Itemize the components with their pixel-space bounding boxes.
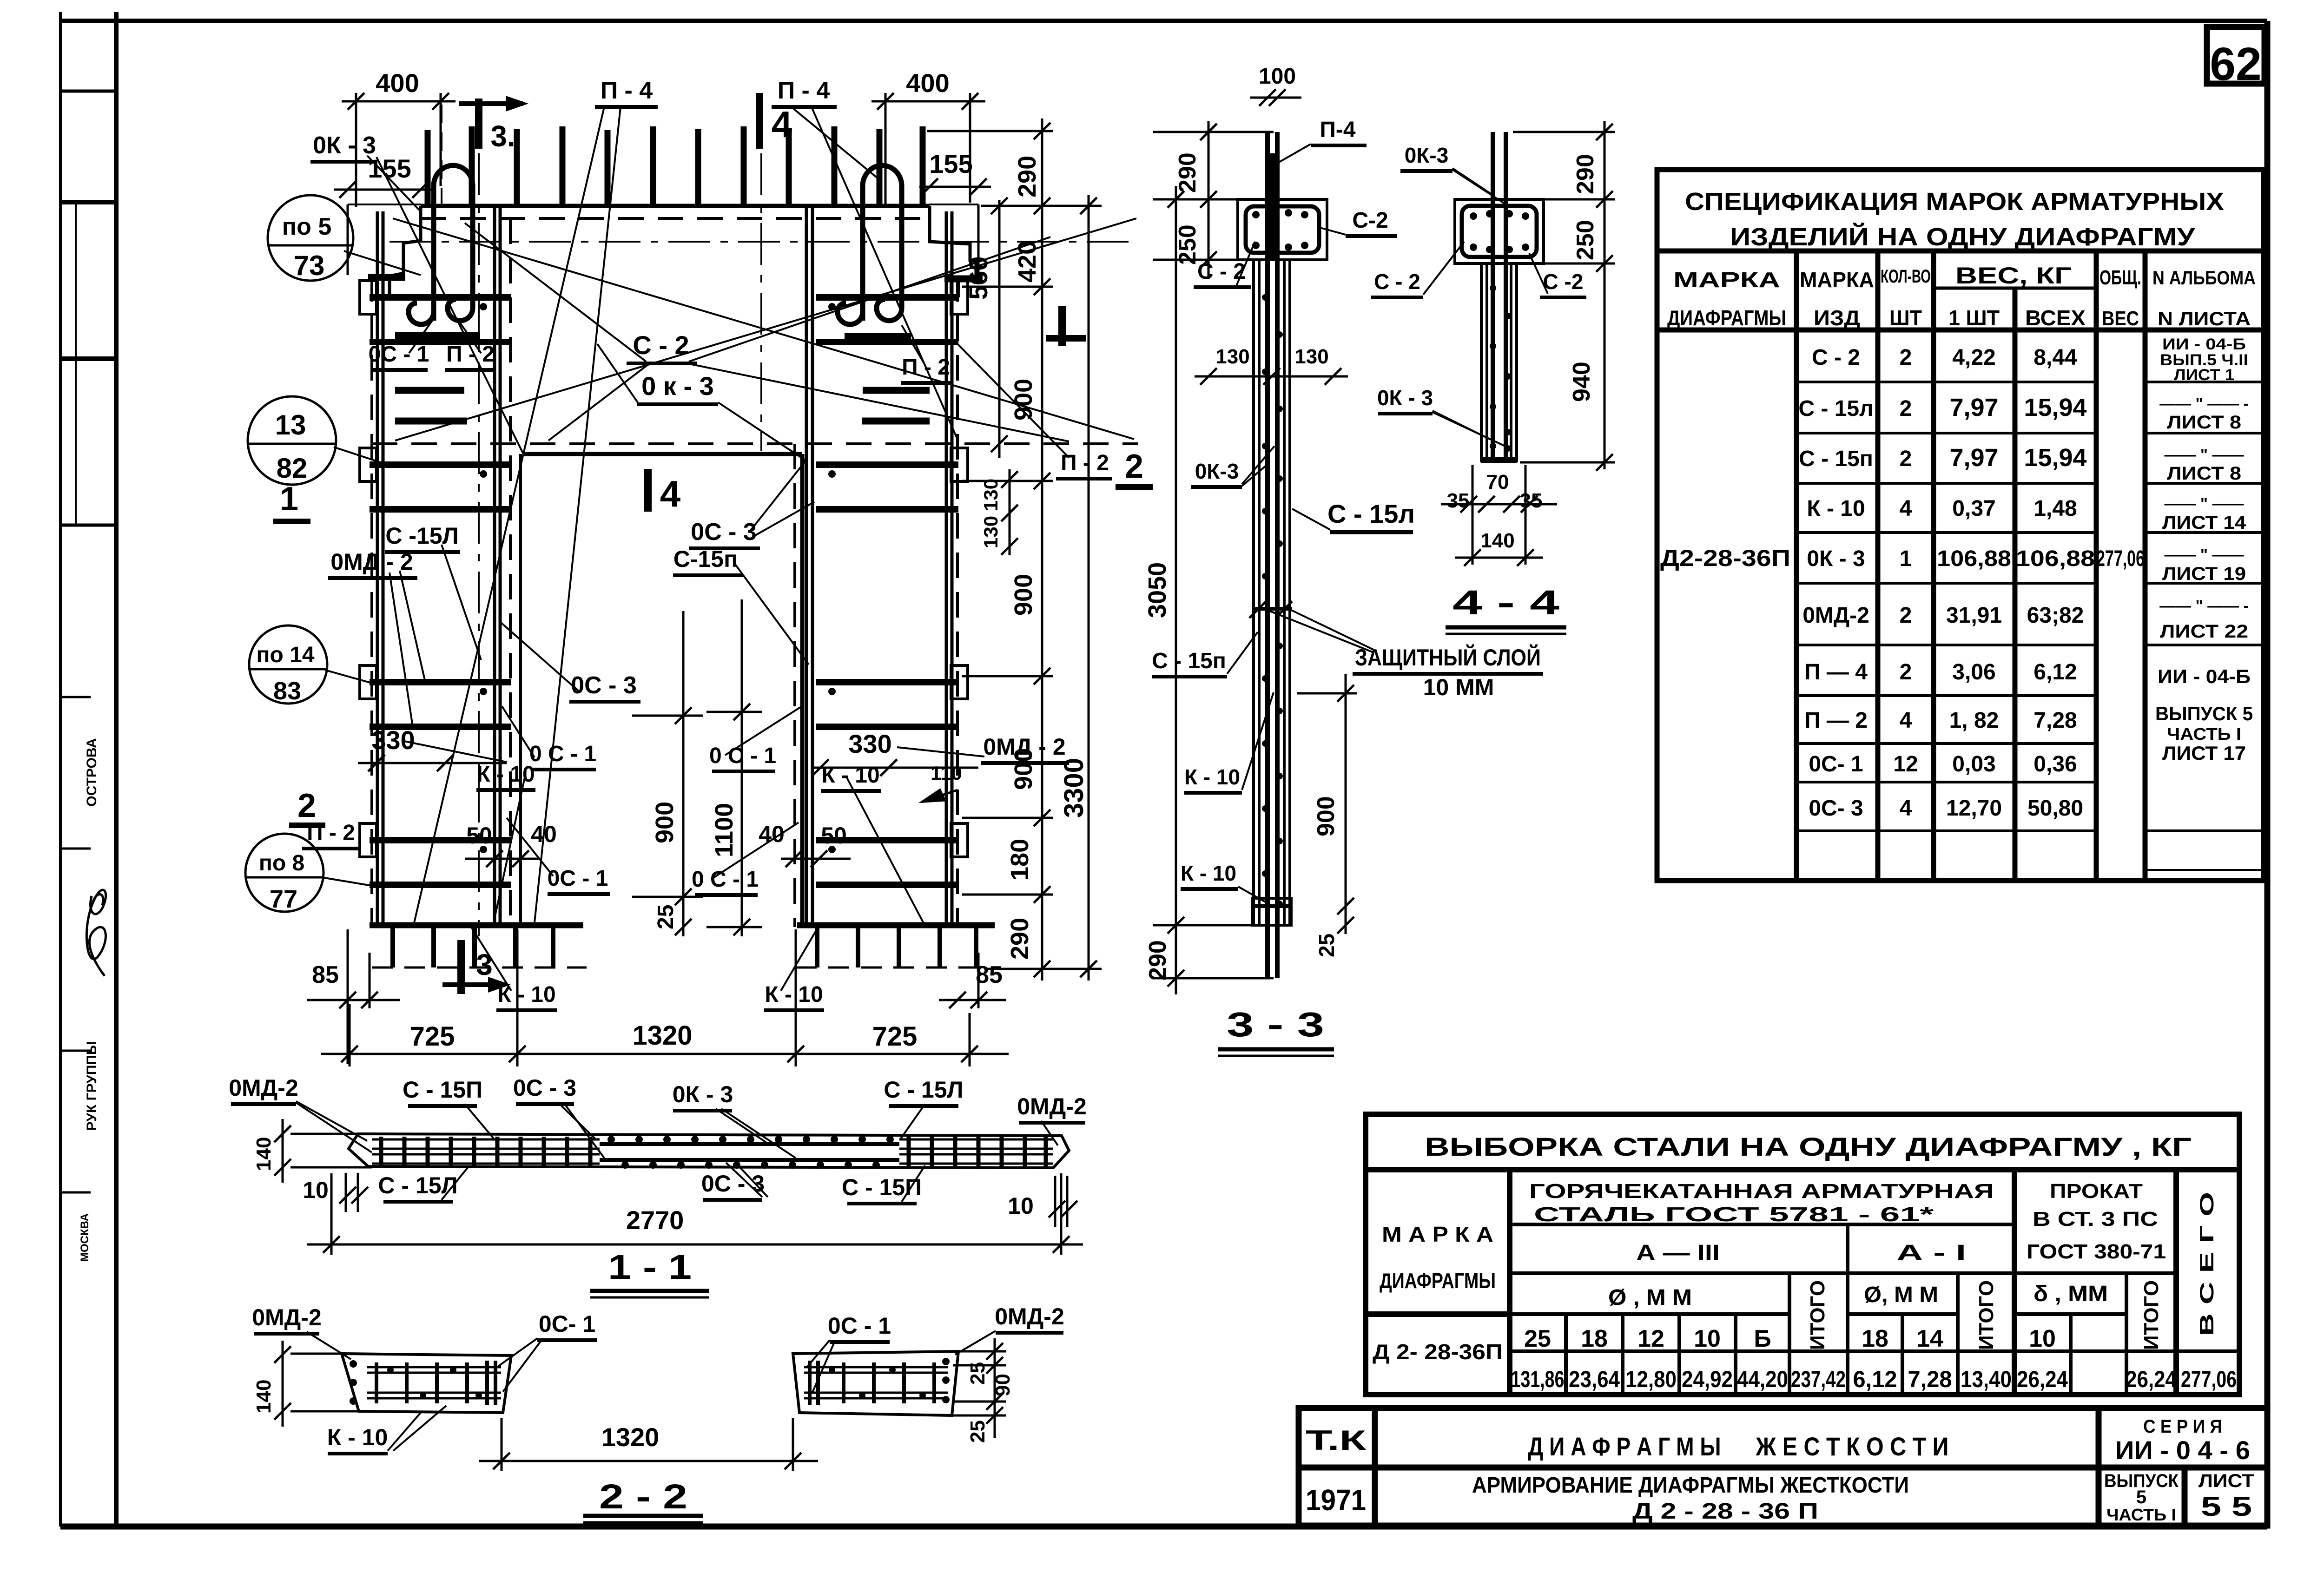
svg-text:4: 4 [660,473,681,514]
svg-text:ЛИСТ 19: ЛИСТ 19 [2162,564,2246,584]
svg-text:100: 100 [1259,64,1296,89]
svg-text:К - 10: К - 10 [1184,765,1240,789]
3-3 head box [1238,199,1327,260]
2-2 dims 25/90/25 right [952,1338,1006,1438]
svg-text:—— " —— -: —— " —— - [2159,597,2249,615]
door opening frame OK-3 [521,454,802,924]
svg-text:Д И А Ф Р А Г М Ы: Д И А Ф Р А Г М Ы [1528,1432,1721,1461]
svg-text:44,20: 44,20 [1737,1366,1788,1392]
svg-text:26,24: 26,24 [2126,1366,2177,1392]
svg-text:0С - 1: 0С - 1 [828,1313,891,1339]
svg-text:3: 3 [476,948,493,981]
wire: P-2 bar left lower [395,418,467,425]
svg-text:3.: 3. [490,119,515,153]
door inner chains 900 / 1100 / 25 [632,599,762,936]
svg-text:900: 900 [651,802,679,843]
callout circle po8/77 [245,834,324,913]
svg-text:РУК ГРУППЫ: РУК ГРУППЫ [84,1041,99,1131]
svg-text:2: 2 [1900,447,1912,471]
1-1 right mesh [899,1139,1053,1164]
dim 560 inner [991,197,1008,458]
svg-text:5: 5 [2136,1487,2146,1507]
svg-text:290: 290 [1144,940,1171,981]
hairpin P-4 left [409,165,473,324]
svg-text:ПРОКАТ: ПРОКАТ [2050,1180,2143,1203]
bottom chain 725/1320/725 [321,929,1009,1066]
svg-text:10: 10 [303,1177,329,1203]
svg-text:290: 290 [1174,152,1201,193]
svg-text:ЛИСТ: ЛИСТ [2199,1471,2254,1491]
svg-text:277,06: 277,06 [2096,546,2145,571]
svg-text:Ø , М М: Ø , М М [1608,1285,1692,1310]
svg-text:—— " —— -: —— " —— - [2159,395,2249,413]
svg-text:2: 2 [1900,345,1912,370]
svg-text:4: 4 [772,104,792,145]
panel top-left corner step [390,206,421,297]
svg-text:0,37: 0,37 [1952,496,1995,521]
svg-text:СТАЛЬ ГОСТ 5781 - 61*: СТАЛЬ ГОСТ 5781 - 61* [1534,1203,1934,1226]
svg-text:277,06: 277,06 [2181,1366,2237,1392]
svg-text:0К - 3: 0К - 3 [313,132,376,159]
svg-text:0 С - 1: 0 С - 1 [692,867,759,892]
svg-text:4 - 4: 4 - 4 [1452,583,1559,622]
svg-text:10 ММ: 10 ММ [1423,674,1494,700]
specification table [1657,170,2264,881]
2-2 left block [342,1354,511,1413]
svg-text:0С - 3: 0С - 3 [571,672,637,699]
svg-text:2: 2 [1900,603,1912,628]
panel top-right corner step [930,206,976,297]
svg-text:К - 10: К - 10 [821,763,879,788]
svg-text:50,80: 50,80 [2027,796,2083,821]
svg-text:2: 2 [297,787,316,824]
svg-text:СПЕЦИФИКАЦИЯ МАРОК АРМАТУРНЫ: СПЕЦИФИКАЦИЯ МАРОК АРМАТУРНЫХ [1685,188,2224,216]
svg-text:24,92: 24,92 [1682,1366,1733,1392]
svg-text:560: 560 [964,257,993,300]
svg-text:12: 12 [1893,752,1918,777]
svg-text:7,28: 7,28 [1908,1366,1952,1392]
svg-text:П - 2: П - 2 [1061,451,1109,475]
svg-text:0С - 3: 0С - 3 [691,519,757,546]
svg-text:ИИ - 0 4 - 6: ИИ - 0 4 - 6 [2115,1435,2250,1465]
svg-text:82: 82 [277,453,308,484]
svg-text:0,36: 0,36 [2033,752,2077,777]
svg-text:С-2: С-2 [1352,208,1388,233]
svg-text:2: 2 [1900,396,1912,421]
svg-text:5 5: 5 5 [2201,1492,2252,1522]
svg-text:ИИ - 04-Б: ИИ - 04-Б [2162,336,2246,353]
svg-text:ЛИСТ 14: ЛИСТ 14 [2162,513,2246,533]
svg-text:6,12: 6,12 [2033,660,2077,684]
3-3 K-10 tie marks [1252,607,1292,611]
svg-text:400: 400 [376,68,419,98]
svg-text:ЧАСТЬ I: ЧАСТЬ I [2106,1505,2176,1524]
svg-text:П - 2: П - 2 [307,821,355,845]
svg-text:0 С - 1: 0 С - 1 [709,744,776,768]
svg-text:290: 290 [1572,154,1599,194]
overall 3300 chain [1080,195,1097,981]
svg-text:ИЗДЕЛИЙ НА ОДНУ ДИАФРАГМУ: ИЗДЕЛИЙ НА ОДНУ ДИАФРАГМУ [1730,223,2196,251]
svg-text:130: 130 [1294,345,1328,368]
specification album/sheet column [2155,336,2253,764]
svg-text:КОЛ-ВО: КОЛ-ВО [1881,266,1931,287]
svg-text:ЧАСТЬ I: ЧАСТЬ I [2167,724,2241,744]
svg-text:С - 15Л: С - 15Л [884,1077,963,1103]
svg-text:ГОРЯЧЕКАТАННАЯ АРМАТУРНАЯ: ГОРЯЧЕКАТАННАЯ АРМАТУРНАЯ [1529,1180,1994,1203]
svg-text:N АЛЬБОМА: N АЛЬБОМА [2152,267,2256,289]
title block [1299,1408,2267,1526]
svg-text:0С - 1: 0С - 1 [369,342,429,367]
svg-text:ДИАФРАГМЫ: ДИАФРАГМЫ [1380,1269,1496,1293]
svg-text:Ø, М М: Ø, М М [1864,1283,1938,1307]
svg-text:4: 4 [1900,496,1912,521]
svg-text:0К-3: 0К-3 [1195,459,1239,483]
svg-text:900: 900 [1010,379,1037,421]
dim 130/130 right column [1001,469,1018,555]
specification table title [1667,188,2256,330]
svg-text:3050: 3050 [1143,562,1171,618]
svg-text:ВЫБОРКА СТАЛИ НА ОДНУ ДИ: ВЫБОРКА СТАЛИ НА ОДНУ ДИАФРАГМУ , КГ [1425,1132,2192,1161]
left rung end plates OS-1 [360,281,376,857]
svg-text:Т.К: Т.К [1306,1425,1367,1456]
steel selection table [1366,1114,2239,1395]
svg-text:ЛИСТ 8: ЛИСТ 8 [2167,463,2241,484]
svg-text:0МД-2: 0МД-2 [1017,1093,1087,1119]
svg-text:МАРКА: МАРКА [1673,268,1780,292]
svg-text:725: 725 [872,1021,918,1052]
hairpin P-4 right [838,165,902,324]
4-4 longitudinal bars [1491,132,1495,458]
right rung end plates OS-1 [951,281,968,857]
svg-text:δ , ММ: δ , ММ [2033,1282,2108,1306]
svg-text:0К - 3: 0К - 3 [1807,546,1865,571]
svg-text:14: 14 [1916,1325,1943,1352]
svg-text:35: 35 [1447,489,1470,512]
3-3 right dims 900/25 [1297,674,1357,934]
svg-text:0,03: 0,03 [1952,752,1995,777]
svg-text:0 к - 3: 0 к - 3 [641,371,714,401]
svg-text:7,97: 7,97 [1949,394,1998,421]
svg-text:140: 140 [252,1137,275,1171]
left column rungs S-15 [370,297,511,885]
svg-text:400: 400 [906,68,949,98]
svg-text:330: 330 [848,729,891,758]
3-3 left dims 290/250/3050/290 [1153,121,1274,994]
svg-text:ЛИСТ 22: ЛИСТ 22 [2160,621,2248,642]
svg-text:13: 13 [275,409,306,441]
svg-text:25: 25 [966,1420,989,1443]
svg-text:0МД-2: 0МД-2 [252,1304,322,1330]
svg-text:7,97: 7,97 [1949,444,1998,472]
section mark 1 right [1058,306,1066,346]
callout circle po14/83 [249,625,327,705]
svg-text:130: 130 [1215,345,1249,368]
left margin boxes [60,91,116,1192]
svg-text:250: 250 [1572,220,1599,260]
2-2 dim 140 left [274,1341,363,1427]
svg-text:1 - 1: 1 - 1 [608,1248,692,1286]
svg-text:ВСЕХ: ВСЕХ [2025,306,2086,330]
svg-text:П — 2: П — 2 [1804,708,1868,733]
svg-text:по 8: по 8 [259,851,304,875]
svg-text:40: 40 [531,821,557,847]
svg-text:С -15Л: С -15Л [385,523,458,549]
svg-text:140: 140 [1480,529,1514,552]
svg-text:40: 40 [759,821,785,847]
right column edges [795,206,957,927]
svg-text:4: 4 [1900,796,1912,821]
svg-text:ИТОГО: ИТОГО [2140,1280,2163,1350]
svg-text:ОСТРОВА: ОСТРОВА [84,738,99,806]
sheet number box 62 [2207,27,2265,90]
svg-text:0 С - 1: 0 С - 1 [529,742,596,766]
svg-text:ИЗД: ИЗД [1814,306,1860,330]
leader diagonals [322,106,1136,991]
svg-text:0МД-2: 0МД-2 [1802,603,1869,628]
svg-text:26,24: 26,24 [2017,1366,2068,1392]
svg-text:12,70: 12,70 [1946,796,2002,821]
svg-text:2770: 2770 [626,1205,684,1235]
svg-text:23,64: 23,64 [1569,1366,1620,1392]
right dimension chain 290/420/900x3/180/290 [927,118,1102,981]
svg-text:85: 85 [976,961,1003,988]
svg-text:С - 15л: С - 15л [1798,396,1873,421]
section mark 4 top [756,93,763,149]
svg-text:1 ШТ: 1 ШТ [1948,306,2000,330]
svg-text:АРМИРОВАНИЕ ДИАФРАГМЫ ЖЕСТКО: АРМИРОВАНИЕ ДИАФРАГМЫ ЖЕСТКОСТИ [1472,1473,1909,1498]
svg-text:1: 1 [1900,546,1912,571]
svg-text:С - 15П: С - 15П [842,1174,922,1200]
svg-text:420: 420 [1013,241,1041,283]
left margin rotated captions [79,738,99,1262]
svg-text:31,91: 31,91 [1946,603,2002,628]
svg-text:С - 15л: С - 15л [1327,499,1415,528]
svg-text:50: 50 [466,823,492,849]
svg-text:73: 73 [294,250,325,281]
svg-text:4,22: 4,22 [1952,345,1995,370]
svg-text:0МД-2: 0МД-2 [229,1075,298,1101]
svg-text:1320: 1320 [601,1422,660,1452]
svg-text:3,06: 3,06 [1952,660,1995,684]
svg-text:ДИАФРАГМЫ: ДИАФРАГМЫ [1667,306,1786,330]
svg-text:940: 940 [1568,362,1595,402]
svg-text:106,88: 106,88 [2016,546,2095,571]
4-4 head box [1455,199,1544,263]
svg-text:М А Р К А: М А Р К А [1382,1222,1493,1246]
svg-text:ЛИСТ 8: ЛИСТ 8 [2167,412,2241,433]
left margin signature [86,890,106,976]
svg-text:0К - 3: 0К - 3 [1377,386,1433,410]
svg-text:П - 4: П - 4 [601,77,653,104]
svg-text:П — 4: П — 4 [1804,660,1868,684]
svg-text:Ж Е С Т К О С Т И: Ж Е С Т К О С Т И [1756,1432,1949,1461]
svg-text:25: 25 [966,1362,989,1385]
svg-text:10: 10 [1694,1325,1721,1352]
svg-text:6,12: 6,12 [1853,1366,1897,1392]
svg-text:—— " ——: —— " —— [2164,446,2244,464]
svg-text:С - 2: С - 2 [633,330,689,360]
svg-text:0С- 3: 0С- 3 [1809,796,1863,821]
svg-text:0С- 1: 0С- 1 [1809,752,1863,777]
1-1 dim 140 [274,1119,372,1183]
svg-text:35: 35 [1520,489,1543,512]
svg-text:15,94: 15,94 [2024,394,2086,421]
svg-text:К - 10: К - 10 [765,982,823,1007]
svg-text:10: 10 [1008,1193,1034,1219]
4-4 bottom dims 35/70/35/140 [1441,465,1557,566]
svg-text:МАРКА: МАРКА [1800,268,1874,292]
svg-text:1320: 1320 [632,1020,692,1051]
svg-text:Б: Б [1754,1325,1771,1352]
svg-text:0МД - 2: 0МД - 2 [983,734,1065,760]
svg-text:1: 1 [280,480,298,518]
svg-text:С-15п: С-15п [673,546,738,572]
svg-text:63;82: 63;82 [2027,603,2084,628]
svg-text:С - 15П: С - 15П [403,1077,482,1103]
svg-text:А — III: А — III [1636,1241,1720,1265]
svg-text:ИТОГО: ИТОГО [1806,1280,1829,1350]
svg-text:В С Е Г О: В С Е Г О [2196,1192,2218,1336]
svg-text:18: 18 [1581,1325,1608,1352]
svg-text:С - 2: С - 2 [1812,345,1860,370]
svg-text:С - 15п: С - 15п [1799,447,1873,471]
svg-text:0К - 3: 0К - 3 [673,1081,733,1107]
right column rungs S-15 [816,297,958,885]
svg-text:4: 4 [1900,708,1912,733]
svg-text:83: 83 [273,677,301,705]
svg-text:—— " ——: —— " —— [2164,495,2244,513]
svg-text:10: 10 [2029,1325,2056,1352]
svg-text:131,86: 131,86 [1511,1366,1565,1392]
svg-text:1100: 1100 [710,803,738,857]
svg-text:0К-3: 0К-3 [1405,143,1449,167]
svg-text:С - 15п: С - 15п [1152,649,1226,673]
svg-text:В СТ. 3 ПС: В СТ. 3 ПС [2033,1208,2158,1231]
svg-text:25: 25 [654,905,678,929]
svg-text:С Е Р И Я: С Е Р И Я [2143,1416,2222,1437]
specification rows [1660,345,2145,821]
svg-text:ВЕС: ВЕС [2102,307,2139,330]
svg-text:2: 2 [1900,660,1912,684]
svg-text:Д 2 - 28 - 36 П: Д 2 - 28 - 36 П [1632,1499,1818,1524]
svg-text:П - 2: П - 2 [446,342,495,367]
svg-text:140: 140 [252,1380,275,1414]
svg-text:62: 62 [2210,38,2261,90]
svg-text:3300: 3300 [1059,758,1089,818]
svg-text:С - 2: С - 2 [1374,270,1420,294]
svg-text:по 14: по 14 [256,643,314,667]
svg-text:900: 900 [1010,574,1037,616]
svg-text:130: 130 [980,479,1002,511]
svg-text:П - 4: П - 4 [778,77,830,104]
protruding bars comb on top [428,126,923,206]
3-3 longitudinal bars [1265,132,1270,978]
svg-text:ОБЩ.: ОБЩ. [2100,266,2141,289]
svg-text:7,28: 7,28 [2033,708,2077,733]
svg-text:18: 18 [1862,1325,1888,1352]
svg-text:110: 110 [931,762,962,784]
svg-text:3 - 3: 3 - 3 [1227,1005,1324,1044]
svg-text:К - 10: К - 10 [476,762,535,787]
svg-text:290: 290 [1013,156,1041,197]
svg-text:155: 155 [929,149,972,178]
svg-text:250: 250 [1174,224,1201,265]
3-3 body dots [1262,294,1283,907]
svg-text:0С - 1: 0С - 1 [548,866,608,891]
svg-text:2 - 2: 2 - 2 [599,1477,687,1516]
1-1 center bars with studs [600,1142,899,1146]
svg-text:330: 330 [371,725,415,755]
svg-text:0С- 1: 0С- 1 [539,1311,595,1337]
svg-text:0С - 3: 0С - 3 [513,1075,576,1101]
svg-text:МОСКВА: МОСКВА [79,1213,91,1262]
svg-text:725: 725 [410,1021,455,1052]
svg-text:0МД-2: 0МД-2 [995,1303,1064,1329]
svg-text:900: 900 [1313,796,1340,836]
wire: P-2 bar right lower [862,418,930,425]
svg-text:13,40: 13,40 [1961,1366,2012,1392]
svg-text:15,94: 15,94 [2024,444,2086,472]
svg-text:2: 2 [1125,448,1143,485]
svg-text:70: 70 [1486,471,1509,494]
svg-text:8,44: 8,44 [2033,345,2077,370]
svg-text:Д2-28-36П: Д2-28-36П [1660,545,1790,571]
svg-text:ГОСТ 380-71: ГОСТ 380-71 [2027,1240,2166,1263]
svg-text:ЗАЩИТНЫЙ СЛОЙ: ЗАЩИТНЫЙ СЛОЙ [1355,644,1541,671]
svg-text:по 5: по 5 [282,213,332,240]
svg-text:ВЫПУСК 5: ВЫПУСК 5 [2155,703,2253,724]
svg-text:П - 2: П - 2 [902,355,950,380]
svg-text:1971: 1971 [1306,1483,1366,1517]
svg-text:К - 10: К - 10 [1807,496,1865,521]
left column edges [372,206,510,927]
svg-text:12: 12 [1637,1325,1664,1352]
svg-text:ЛИСТ 17: ЛИСТ 17 [2162,742,2246,764]
section mark 3 bottom with arrow [457,940,465,994]
svg-text:ВЕС, КГ: ВЕС, КГ [1955,263,2072,289]
svg-text:ИТОГО: ИТОГО [1975,1280,1998,1350]
svg-text:90: 90 [991,1374,1014,1396]
svg-text:ИИ - 04-Б: ИИ - 04-Б [2158,665,2251,687]
svg-text:85: 85 [312,961,339,988]
callout circle po5/73 [268,195,353,281]
svg-text:180: 180 [1006,839,1034,881]
svg-text:130: 130 [980,516,1002,548]
svg-text:N ЛИСТА: N ЛИСТА [2158,308,2251,329]
bars protruding below feet [393,927,976,967]
svg-text:К - 10: К - 10 [327,1424,388,1450]
svg-text:А - I: А - I [1896,1241,1966,1265]
svg-text:50: 50 [821,823,847,849]
svg-text:К - 10: К - 10 [1181,861,1236,885]
svg-text:П-4: П-4 [1320,118,1355,142]
svg-text:К - 10: К - 10 [497,982,555,1007]
section mark 4 middle [644,469,652,512]
svg-text:106,88: 106,88 [1937,546,2011,571]
svg-text:1,48: 1,48 [2033,496,2077,521]
bottom edge bars of columns [370,922,583,928]
svg-text:237,42: 237,42 [1791,1366,1846,1392]
svg-text:Д 2- 28-36П: Д 2- 28-36П [1373,1340,1503,1364]
svg-text:25: 25 [1524,1325,1551,1352]
svg-text:1, 82: 1, 82 [1949,708,1999,733]
svg-text:ЛИСТ 1: ЛИСТ 1 [2174,366,2234,384]
svg-text:ШТ: ШТ [1889,306,1922,330]
4-4 right dims 290/250/940 [1513,121,1615,471]
4-4 stem [1481,263,1517,462]
svg-text:25: 25 [1314,934,1339,957]
svg-text:77: 77 [270,885,297,913]
